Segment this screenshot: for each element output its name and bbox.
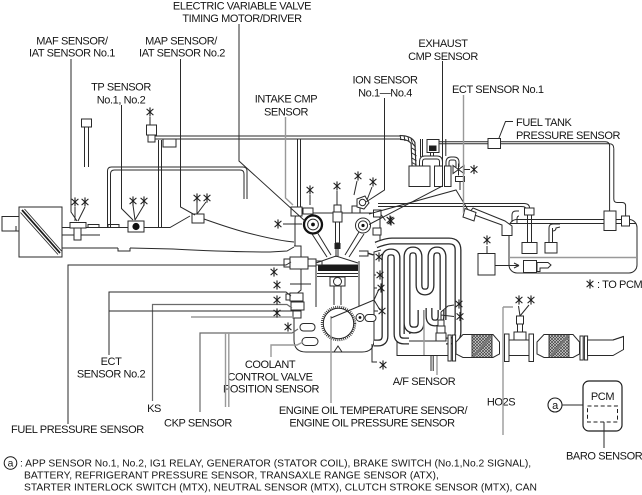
flange pair 4 [580, 336, 583, 360]
hatched purge hose [400, 138, 414, 167]
tail pipe [588, 337, 624, 356]
leader EXHAUST CMP [369, 61, 446, 225]
svg-text:: TO PCM: : TO PCM [597, 279, 642, 291]
svg-text:No.1, No.2: No.1, No.2 [97, 95, 146, 107]
BARO dashed box [588, 406, 618, 422]
small box under purge line [163, 139, 176, 147]
leader VVT [239, 24, 305, 221]
a-box with arrow to pump [478, 254, 495, 276]
HO2S boss on pipe [514, 332, 526, 340]
svg-text:a: a [8, 458, 14, 469]
canister box 3 [445, 166, 452, 187]
connecting rod [334, 286, 341, 305]
star AF a [456, 299, 463, 308]
duct downstream of MAP [204, 219, 294, 242]
leader CKP [200, 329, 298, 412]
MAF sensor body [70, 223, 86, 229]
star TP a [130, 196, 137, 205]
star MAP a [194, 193, 201, 202]
leader ENGINE OIL (diagonal to sensors) [331, 289, 380, 318]
BARO leader [603, 422, 605, 448]
oil temp sensor boss right [359, 251, 368, 256]
leader MAP [181, 59, 207, 215]
intake valves [312, 232, 331, 257]
star right block 3 [379, 306, 386, 315]
purge fitting top [149, 117, 151, 125]
grey bar y317 [191, 316, 294, 318]
star cam left pointer [275, 219, 282, 228]
bay line y311 [109, 310, 293, 312]
right slot [365, 315, 376, 322]
star left ckp [285, 322, 292, 331]
svg-text:ENGINE OIL TEMPERATURE SENSOR/: ENGINE OIL TEMPERATURE SENSOR/ [279, 405, 469, 417]
TP sensor body [128, 221, 144, 232]
svg-text:CMP SENSOR: CMP SENSOR [408, 51, 478, 63]
svg-text:ECT: ECT [101, 356, 122, 368]
footnote a: list of sensors [4, 457, 537, 494]
star AF b [457, 312, 464, 321]
MAP sensor body [192, 214, 204, 223]
coolant valve oval [302, 338, 318, 346]
leader ECT No.2 [109, 292, 291, 355]
small breather fitting on pipe [82, 119, 92, 127]
PCM box [583, 381, 622, 431]
svg-text:MAP SENSOR/: MAP SENSOR/ [145, 36, 218, 48]
pipe segment 2 [509, 340, 529, 356]
ECT2 sensor boss [290, 293, 303, 301]
svg-text:: APP SENSOR No.1, No.2, IG1 R: : APP SENSOR No.1, No.2, IG1 RELAY, GENE… [20, 459, 531, 470]
star tank a-box [484, 235, 491, 244]
svg-text:A/F SENSOR: A/F SENSOR [393, 376, 456, 388]
small sensor box [293, 311, 301, 318]
svg-text:EXHAUST: EXHAUST [418, 38, 468, 50]
cam mounts [303, 208, 313, 214]
A/F star fork [441, 305, 454, 320]
exhaust front pipe under serpentine [397, 341, 451, 356]
exhaust valves [345, 232, 364, 257]
wrist pin [330, 277, 345, 286]
svg-text:TP SENSOR: TP SENSOR [91, 82, 151, 94]
valve cover outline [295, 213, 380, 246]
star head 4 [370, 177, 377, 186]
engine bay diagonal to tank [369, 190, 468, 214]
small filter under valve [456, 177, 465, 182]
canister box 1 [409, 166, 430, 187]
flange pair 1 [448, 335, 451, 361]
star head 2 [334, 181, 341, 190]
CKP slot [300, 324, 315, 332]
leader ION [366, 98, 385, 202]
duct notch 1 [88, 225, 99, 228]
intake duct inner line [62, 234, 100, 236]
star head 1 [307, 185, 314, 194]
canister bridge pipe 2 [448, 159, 458, 168]
svg-text:ELECTRIC VARIABLE VALVE: ELECTRIC VARIABLE VALVE [173, 1, 311, 13]
fuel pump module [524, 261, 537, 273]
svg-text:FUEL PRESSURE SENSOR: FUEL PRESSURE SENSOR [11, 424, 144, 436]
flange pair 2 [505, 334, 510, 362]
star oil temp [376, 252, 383, 261]
pipe hanger bracket [431, 356, 433, 371]
filler neck fitting [525, 208, 535, 215]
svg-text:SENSOR No.2: SENSOR No.2 [77, 369, 146, 381]
oil pan drain [334, 346, 342, 352]
star head 3 [355, 171, 362, 180]
duct notch 2 [108, 225, 119, 228]
exhaust cam sprocket [356, 218, 371, 233]
A/F sensor body [438, 320, 444, 326]
right down pipe to canister2 [610, 145, 626, 216]
star MAP b [204, 193, 211, 202]
filler cap [463, 209, 476, 222]
piston crown band [318, 265, 358, 272]
pipe double y204 to tank [378, 204, 524, 207]
pipe elbow into tank [521, 204, 530, 209]
star bottom elbow [380, 360, 387, 369]
purge port drop lines [159, 140, 162, 228]
star HO2S a [516, 295, 523, 304]
svg-text:CONTROL VALVE: CONTROL VALVE [227, 372, 312, 384]
combustion chamber roof [316, 256, 358, 263]
star left small [274, 308, 281, 317]
leader MAF [71, 59, 85, 221]
cylinder walls [316, 261, 359, 307]
canister 2 over tank [604, 211, 616, 231]
fuel rail assembly left [290, 257, 308, 269]
catalytic converter 2 [537, 335, 580, 358]
HO2S star fork [519, 305, 530, 316]
intake duct lower edge [62, 247, 294, 252]
star oil press top [388, 216, 395, 225]
leader HO2S [503, 307, 513, 435]
svg-text:PRESSURE SENSOR: PRESSURE SENSOR [516, 130, 620, 142]
svg-text:STARTER INTERLOCK SWITCH (MTX): STARTER INTERLOCK SWITCH (MTX), NEUTRAL … [24, 483, 537, 494]
leader KS [153, 305, 293, 402]
KS boss [291, 302, 304, 310]
tank internal box 2 [545, 243, 557, 254]
star right block 2 [378, 283, 385, 292]
crank toothed wheel [323, 308, 353, 338]
svg-text:TIMING MOTOR/DRIVER: TIMING MOTOR/DRIVER [182, 13, 302, 25]
star left ect2 [274, 280, 281, 289]
svg-text:IAT SENSOR No.2: IAT SENSOR No.2 [139, 47, 225, 59]
oil temp star link [368, 254, 373, 256]
star MAF b [82, 197, 89, 206]
block edge ticks to stars [374, 275, 378, 311]
star left rail [271, 267, 278, 276]
air cleaner inlet [2, 217, 19, 232]
serpentine bottom U left [407, 310, 421, 330]
piston rings [317, 274, 358, 277]
catalytic converter 1 [456, 335, 500, 358]
svg-text:ECT SENSOR No.1: ECT SENSOR No.1 [452, 84, 544, 96]
grey pair x226 [226, 333, 229, 407]
circle a marker [548, 398, 562, 412]
leader ENGINE OIL (vertical) [330, 316, 332, 403]
elbow with star bottom right [372, 344, 377, 362]
serpentine left tubes [374, 252, 409, 343]
svg-text:BATTERY, REFRIGERANT PRESSURE: BATTERY, REFRIGERANT PRESSURE SENSOR, TR… [24, 471, 439, 482]
svg-text:No.1—No.4: No.1—No.4 [358, 88, 412, 100]
block inner line [290, 283, 311, 285]
leader A/F [424, 310, 437, 375]
svg-text:FUEL TANK: FUEL TANK [516, 117, 573, 129]
leader FUEL PRESSURE SENSOR [68, 262, 291, 424]
tank internal box 1 [522, 243, 537, 254]
air cleaner box [19, 207, 62, 257]
oil press sensor boss top [374, 210, 382, 217]
riser pipes from tank boxes [528, 215, 561, 242]
canister box 2 [435, 166, 443, 187]
svg-text:INTAKE CMP: INTAKE CMP [255, 94, 317, 106]
HO2S sensor body [517, 316, 524, 324]
svg-text:HO2S: HO2S [487, 397, 515, 409]
svg-text:ION SENSOR: ION SENSOR [352, 75, 418, 87]
star vent valve [471, 165, 478, 174]
svg-text:IAT SENSOR No.1: IAT SENSOR No.1 [29, 47, 115, 59]
intake cam sprocket (VVT actuator) [304, 216, 322, 234]
svg-text:PCM: PCM [591, 391, 614, 403]
intake CMP boss [291, 207, 302, 216]
ION coil on cover [357, 196, 369, 209]
filler elbow [512, 211, 519, 223]
intake duct upper edge [62, 216, 190, 228]
svg-text:MAF SENSOR/: MAF SENSOR/ [36, 36, 109, 48]
leader FUEL TANK PRESSURE SENSOR [499, 122, 513, 139]
serpentine inner nest [407, 250, 443, 334]
star left ks [274, 295, 281, 304]
fuel tank pressure sensor box [488, 139, 501, 149]
note TO PCM [587, 279, 594, 288]
star TP b [141, 196, 148, 205]
engine bay pipe y167 [108, 167, 248, 228]
right side circle sensor [356, 314, 364, 322]
purge line double [155, 135, 400, 137]
star cam right [387, 215, 394, 224]
leader INTAKE CMP [286, 117, 294, 205]
leader TP [122, 105, 145, 220]
svg-text:CKP SENSOR: CKP SENSOR [164, 418, 232, 430]
vent valve bowtie [453, 166, 464, 174]
svg-text:COOLANT: COOLANT [245, 359, 296, 371]
canister drop pair [421, 139, 423, 157]
serpentine outer loop [376, 241, 458, 341]
line from canister to FTP sensor and right [439, 142, 614, 149]
serpentine bottom U right [429, 308, 441, 323]
manifold purge port drop [298, 139, 301, 207]
leader ECT No.1 [463, 95, 465, 213]
svg-text:BARO SENSOR: BARO SENSOR [566, 451, 642, 463]
tank top inner line [510, 223, 636, 225]
duct notch 3 [118, 248, 130, 251]
canister bridge pipe 1 [421, 158, 441, 167]
fuel level line [510, 257, 636, 259]
star right block 1 [377, 270, 384, 279]
star purge fitting [147, 107, 154, 116]
purge solenoid valve [427, 140, 439, 153]
leader COOLANT [271, 342, 303, 357]
engine block outline [294, 246, 381, 352]
svg-text:POSITION SENSOR: POSITION SENSOR [223, 384, 320, 396]
svg-text:KS: KS [147, 403, 161, 415]
fuel tank body [509, 220, 637, 274]
line a to PCM [562, 404, 583, 406]
injector / spark plug stack [334, 205, 341, 212]
svg-text:SENSOR: SENSOR [264, 107, 309, 119]
svg-text:ENGINE OIL PRESSURE SENSOR: ENGINE OIL PRESSURE SENSOR [289, 418, 455, 430]
star HO2S b [528, 295, 535, 304]
star MAF a [72, 197, 79, 206]
fuel filler pipe [469, 208, 512, 236]
